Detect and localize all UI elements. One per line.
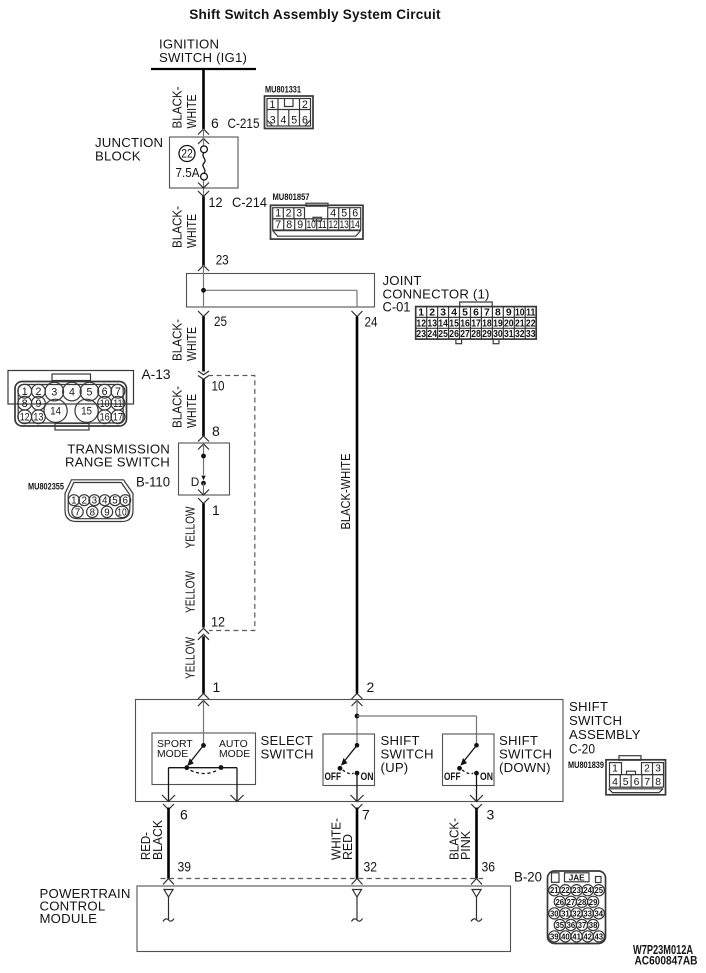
svg-text:33: 33 (583, 908, 592, 918)
svg-text:12: 12 (211, 614, 225, 630)
connector view A-13 (8, 371, 134, 431)
drawing number AC600847AB (635, 955, 698, 968)
svg-text:20: 20 (504, 318, 514, 329)
terminal arrows at B-20 (163, 879, 174, 885)
svg-text:1: 1 (212, 502, 220, 518)
svg-text:34: 34 (595, 908, 604, 918)
shift switch assembly labels (568, 699, 641, 770)
svg-text:16: 16 (460, 318, 470, 329)
wire BLACK-WHITE (C-214 to joint connector) (202, 197, 205, 266)
label pin 6 / connector C-215 (211, 115, 260, 131)
svg-text:30: 30 (493, 329, 503, 340)
svg-text:24: 24 (583, 885, 592, 895)
svg-text:26: 26 (556, 897, 565, 907)
label pin 36 (482, 859, 496, 875)
svg-text:7: 7 (275, 219, 281, 231)
svg-text:35: 35 (556, 920, 565, 930)
svg-text:25: 25 (214, 313, 227, 329)
svg-text:39: 39 (550, 931, 559, 941)
label A-13 (142, 366, 171, 382)
svg-text:36: 36 (567, 920, 576, 930)
inline connector A-13 chevrons (198, 371, 209, 379)
label pin 12 / connector C-214 (209, 194, 268, 210)
label BLACK-WHITE (below joint connector) (170, 319, 200, 361)
svg-text:1: 1 (213, 679, 221, 695)
svg-text:BLACK-: BLACK- (170, 319, 185, 361)
svg-text:3: 3 (92, 496, 98, 507)
svg-text:6: 6 (302, 115, 308, 127)
svg-text:BLACK-: BLACK- (170, 206, 185, 248)
svg-text:10: 10 (306, 219, 316, 231)
svg-text:28: 28 (471, 329, 481, 340)
label YELLOW (middle) (183, 570, 198, 613)
svg-text:MU802355: MU802355 (28, 482, 64, 492)
wire YELLOW (12 to shift assembly) (202, 636, 205, 693)
svg-text:3: 3 (51, 386, 57, 398)
svg-text:3: 3 (270, 115, 276, 127)
svg-text:3: 3 (440, 308, 446, 319)
svg-text:4: 4 (612, 777, 618, 788)
shift assembly internal feed node (355, 701, 477, 746)
svg-text:29: 29 (589, 897, 598, 907)
svg-text:19: 19 (493, 318, 503, 329)
svg-text:9: 9 (506, 308, 512, 319)
svg-text:15: 15 (449, 318, 459, 329)
svg-text:9: 9 (104, 507, 109, 518)
svg-text:43: 43 (595, 931, 604, 941)
label pin 2 / entry chevrons (352, 679, 375, 706)
svg-text:39: 39 (178, 859, 192, 875)
svg-text:(UP): (UP) (381, 760, 409, 775)
svg-text:1: 1 (418, 308, 424, 319)
svg-text:7: 7 (484, 308, 490, 319)
svg-text:C-215: C-215 (228, 115, 260, 131)
label pin 32 (364, 859, 378, 875)
svg-text:B-20: B-20 (514, 870, 542, 885)
joint connector entry chevron (198, 266, 209, 272)
svg-text:12: 12 (328, 219, 338, 231)
svg-text:22: 22 (181, 149, 193, 161)
svg-text:27: 27 (460, 329, 470, 340)
label pin 8 / entry chevron (198, 423, 220, 442)
PCM terminal 36 (471, 890, 482, 922)
svg-text:5: 5 (341, 208, 347, 220)
shift switch assembly box (136, 700, 564, 802)
svg-text:6: 6 (473, 308, 479, 319)
svg-text:BLOCK: BLOCK (95, 149, 141, 164)
dashed harness boundary (A-13 to 12) (208, 376, 255, 631)
svg-text:11: 11 (318, 219, 327, 231)
exit chevron down switch / label pin 3 (471, 804, 495, 823)
joint connector internal wires (204, 266, 358, 308)
svg-text:Shift Switch Assembly System C: Shift Switch Assembly System Circuit (189, 7, 441, 22)
svg-text:25: 25 (438, 329, 448, 340)
svg-text:18: 18 (482, 318, 492, 329)
svg-text:YELLOW: YELLOW (183, 506, 198, 549)
svg-text:24: 24 (427, 329, 437, 340)
svg-text:7.5A: 7.5A (176, 166, 201, 180)
svg-text:23: 23 (416, 329, 426, 340)
svg-text:37: 37 (578, 920, 587, 930)
select switch label (261, 733, 314, 762)
svg-text:8: 8 (90, 507, 96, 518)
svg-text:6: 6 (352, 208, 358, 220)
svg-text:SWITCH (IG1): SWITCH (IG1) (159, 50, 247, 65)
svg-text:2: 2 (367, 679, 375, 695)
B-110 exit chevrons / label pin 1 (198, 490, 220, 519)
svg-text:C-214: C-214 (232, 194, 267, 210)
svg-text:7: 7 (362, 807, 370, 823)
svg-text:7: 7 (115, 386, 121, 398)
svg-text:6: 6 (122, 496, 128, 507)
connector view MU801331 (265, 85, 314, 129)
dashed connector line B-20 (161, 878, 484, 880)
label D position (191, 475, 200, 489)
shift switch (down) label (499, 733, 552, 775)
svg-text:(DOWN): (DOWN) (499, 760, 551, 775)
svg-text:32: 32 (572, 908, 581, 918)
svg-text:2: 2 (644, 764, 650, 775)
wire YELLOW (B-110 to inline 12) (202, 504, 205, 628)
junction block internal wire (203, 129, 205, 197)
svg-text:3: 3 (655, 764, 661, 775)
svg-text:5: 5 (623, 777, 629, 788)
svg-text:22: 22 (526, 318, 536, 329)
svg-text:B-110: B-110 (136, 474, 170, 490)
svg-text:5: 5 (112, 496, 118, 507)
svg-text:2: 2 (286, 208, 292, 220)
svg-text:YELLOW: YELLOW (183, 570, 198, 613)
svg-text:11: 11 (526, 308, 535, 319)
svg-text:21: 21 (550, 885, 559, 895)
B-110 internal: entry chevron, node, D contact (198, 444, 209, 495)
label pin 24 / exit chevron (352, 311, 378, 330)
svg-text:SHIFT: SHIFT (569, 699, 608, 714)
svg-text:2: 2 (429, 308, 435, 319)
svg-text:41: 41 (572, 931, 581, 941)
svg-text:1: 1 (270, 99, 276, 111)
svg-text:2: 2 (302, 99, 308, 111)
svg-text:5: 5 (86, 386, 92, 398)
svg-text:32: 32 (515, 329, 525, 340)
svg-text:1: 1 (612, 764, 618, 775)
svg-text:38: 38 (589, 920, 598, 930)
label BLACK-WHITE (below junction block) (170, 206, 200, 248)
svg-text:OFF: OFF (325, 771, 342, 783)
svg-text:11: 11 (113, 398, 122, 410)
label BLACK-WHITE (above C-215) (170, 87, 200, 129)
svg-text:1: 1 (22, 386, 28, 398)
svg-text:MODE: MODE (219, 749, 250, 760)
svg-text:31: 31 (561, 908, 570, 918)
wire BLACK-PINK (475, 808, 478, 879)
svg-text:4: 4 (281, 115, 287, 127)
svg-text:MU801839: MU801839 (568, 760, 604, 770)
label BLACK-WHITE (above B-110) (170, 386, 200, 428)
svg-text:ASSEMBLY: ASSEMBLY (569, 727, 641, 742)
svg-text:4: 4 (69, 386, 75, 398)
svg-text:12: 12 (416, 318, 426, 329)
wire: ignition feed BLACK-WHITE (segment to C-215) (202, 69, 205, 129)
svg-text:JAE: JAE (569, 873, 585, 882)
label BLACK-WHITE (right branch) (338, 454, 353, 530)
svg-text:4: 4 (330, 208, 336, 220)
svg-text:12: 12 (20, 412, 30, 424)
svg-text:13: 13 (339, 219, 349, 231)
svg-text:PINK: PINK (458, 831, 473, 860)
svg-text:BLACK: BLACK (150, 820, 165, 860)
svg-text:8: 8 (495, 308, 501, 319)
svg-text:17: 17 (113, 412, 123, 424)
exit chevron select switch / label pin 6 (163, 804, 188, 823)
svg-text:42: 42 (583, 931, 592, 941)
svg-text:8: 8 (212, 423, 220, 439)
svg-text:10: 10 (100, 398, 110, 410)
svg-text:6: 6 (102, 386, 108, 398)
svg-text:4: 4 (102, 496, 108, 507)
svg-text:MODULE: MODULE (40, 911, 98, 926)
svg-text:22: 22 (561, 885, 570, 895)
joint connector labels (383, 273, 490, 315)
svg-text:WHITE: WHITE (184, 394, 199, 428)
svg-text:17: 17 (471, 318, 481, 329)
svg-text:3: 3 (487, 807, 495, 823)
svg-text:14: 14 (438, 318, 448, 329)
label pin 1 (shift assembly) / entry chevrons (198, 679, 221, 706)
shift switch (up) internals (325, 743, 374, 802)
PCM terminal 39 (163, 890, 174, 922)
junction block label (95, 135, 163, 164)
svg-text:MU801857: MU801857 (273, 192, 310, 202)
wire WHITE-RED (356, 808, 359, 879)
svg-text:4: 4 (451, 308, 457, 319)
wire BLACK-WHITE (joint connector to A-13) (202, 317, 205, 372)
wire BLACK-WHITE (A-13 to B-110) (202, 379, 205, 436)
svg-text:AC600847AB: AC600847AB (635, 955, 698, 968)
svg-text:26: 26 (449, 329, 459, 340)
powertrain control module box (137, 886, 511, 952)
svg-text:6: 6 (211, 115, 219, 131)
svg-text:10: 10 (117, 507, 127, 518)
shift switch (down) internals (444, 743, 493, 802)
svg-text:BLACK-WHITE: BLACK-WHITE (338, 454, 353, 530)
svg-text:36: 36 (482, 859, 496, 875)
svg-text:3: 3 (296, 208, 302, 220)
connector view MU802355 (28, 480, 133, 522)
connector view MU801839 (C-20) (606, 756, 666, 795)
select switch internals (157, 701, 250, 802)
fuse rating 7.5A (176, 166, 201, 180)
svg-text:1: 1 (71, 496, 76, 507)
svg-text:12: 12 (209, 194, 223, 210)
label pin 23 (216, 252, 229, 268)
svg-text:13: 13 (33, 412, 43, 424)
label B-110 (136, 474, 170, 490)
svg-text:7: 7 (644, 777, 650, 788)
svg-text:8: 8 (655, 777, 661, 788)
shift switch (up) label (381, 733, 434, 775)
svg-text:RED: RED (340, 834, 355, 860)
svg-text:2: 2 (35, 386, 41, 398)
svg-text:5: 5 (462, 308, 468, 319)
svg-text:ON: ON (361, 771, 374, 783)
svg-text:31: 31 (504, 329, 514, 340)
svg-text:C-20: C-20 (569, 742, 595, 757)
drawing number W7P23M012A (633, 943, 693, 957)
ignition switch (IG1) source label (159, 37, 247, 66)
powertrain control module label (40, 886, 131, 926)
label pin 12 / inline connector chevrons (198, 614, 225, 640)
label WHITE-RED (329, 818, 356, 860)
label pin 25 / exit chevron (198, 311, 227, 329)
svg-text:13: 13 (427, 318, 437, 329)
svg-text:BLACK-: BLACK- (170, 386, 185, 428)
svg-text:23: 23 (572, 885, 581, 895)
svg-text:1: 1 (275, 208, 281, 220)
label pin 39 (178, 859, 192, 875)
label BLACK-PINK (447, 818, 474, 860)
svg-text:28: 28 (578, 897, 587, 907)
svg-text:WHITE: WHITE (184, 327, 199, 361)
label YELLOW (lower) (183, 636, 198, 679)
svg-text:WHITE: WHITE (184, 95, 199, 129)
svg-text:10: 10 (212, 378, 225, 394)
svg-text:MODE: MODE (157, 749, 188, 760)
svg-text:2: 2 (81, 496, 86, 507)
wire RED-BLACK (167, 808, 170, 879)
svg-text:24: 24 (365, 314, 378, 330)
svg-text:15: 15 (81, 406, 92, 418)
svg-text:10: 10 (515, 308, 525, 319)
svg-text:27: 27 (567, 897, 576, 907)
svg-text:D: D (191, 475, 200, 489)
svg-text:MU801331: MU801331 (265, 85, 301, 95)
label YELLOW (upper) (183, 506, 198, 549)
svg-text:40: 40 (561, 931, 570, 941)
svg-text:5: 5 (291, 115, 297, 127)
shift switch (down) box (443, 734, 495, 786)
PCM terminal 32 (352, 890, 363, 922)
svg-text:8: 8 (22, 398, 28, 410)
svg-text:30: 30 (550, 908, 559, 918)
label pin 10 (212, 378, 225, 394)
svg-text:ON: ON (480, 771, 493, 783)
svg-text:9: 9 (297, 219, 303, 231)
connector view C-01 pin table (416, 302, 537, 344)
svg-text:OFF: OFF (444, 771, 461, 783)
svg-text:23: 23 (216, 252, 229, 268)
fuse 7.5A symbol (201, 146, 208, 180)
svg-text:WHITE: WHITE (184, 214, 199, 248)
connector C-215 chevrons (198, 129, 209, 144)
junction block box (170, 137, 239, 188)
exit chevron up switch / label pin 7 (352, 804, 371, 823)
svg-text:32: 32 (364, 859, 378, 875)
svg-text:14: 14 (50, 406, 61, 418)
select switch box (152, 733, 256, 785)
connector C-214 chevrons (198, 183, 209, 197)
ignition bus bar (151, 68, 256, 70)
label RED-BLACK (138, 820, 165, 860)
svg-text:7: 7 (75, 507, 80, 518)
title (189, 7, 441, 22)
svg-text:A-13: A-13 (142, 366, 171, 382)
svg-text:SWITCH: SWITCH (569, 713, 622, 728)
svg-text:C-01: C-01 (383, 299, 411, 315)
fuse 22 circled label (179, 146, 195, 162)
joint connector (1) box (187, 274, 375, 308)
svg-text:YELLOW: YELLOW (183, 636, 198, 679)
connector view MU801857 (271, 192, 364, 239)
svg-text:6: 6 (180, 807, 188, 823)
shift switch (up) box (323, 734, 375, 786)
svg-text:RANGE SWITCH: RANGE SWITCH (65, 455, 170, 470)
transmission range switch label (65, 442, 170, 470)
svg-text:29: 29 (482, 329, 492, 340)
connector view B-20 (548, 871, 606, 944)
label B-20 (514, 870, 542, 885)
svg-text:25: 25 (595, 885, 604, 895)
svg-text:16: 16 (100, 412, 110, 424)
junction node in joint connector (201, 288, 206, 293)
svg-text:8: 8 (286, 219, 292, 231)
svg-text:33: 33 (526, 329, 536, 340)
svg-text:21: 21 (515, 318, 525, 329)
svg-text:9: 9 (35, 398, 41, 410)
svg-text:14: 14 (350, 219, 360, 231)
wire BLACK-WHITE (right branch, joint connector to shift assembly) (356, 317, 359, 694)
transmission range switch box B-110 (179, 443, 230, 495)
svg-text:6: 6 (634, 777, 640, 788)
svg-text:SWITCH: SWITCH (261, 747, 314, 762)
svg-text:BLACK-: BLACK- (170, 87, 185, 129)
